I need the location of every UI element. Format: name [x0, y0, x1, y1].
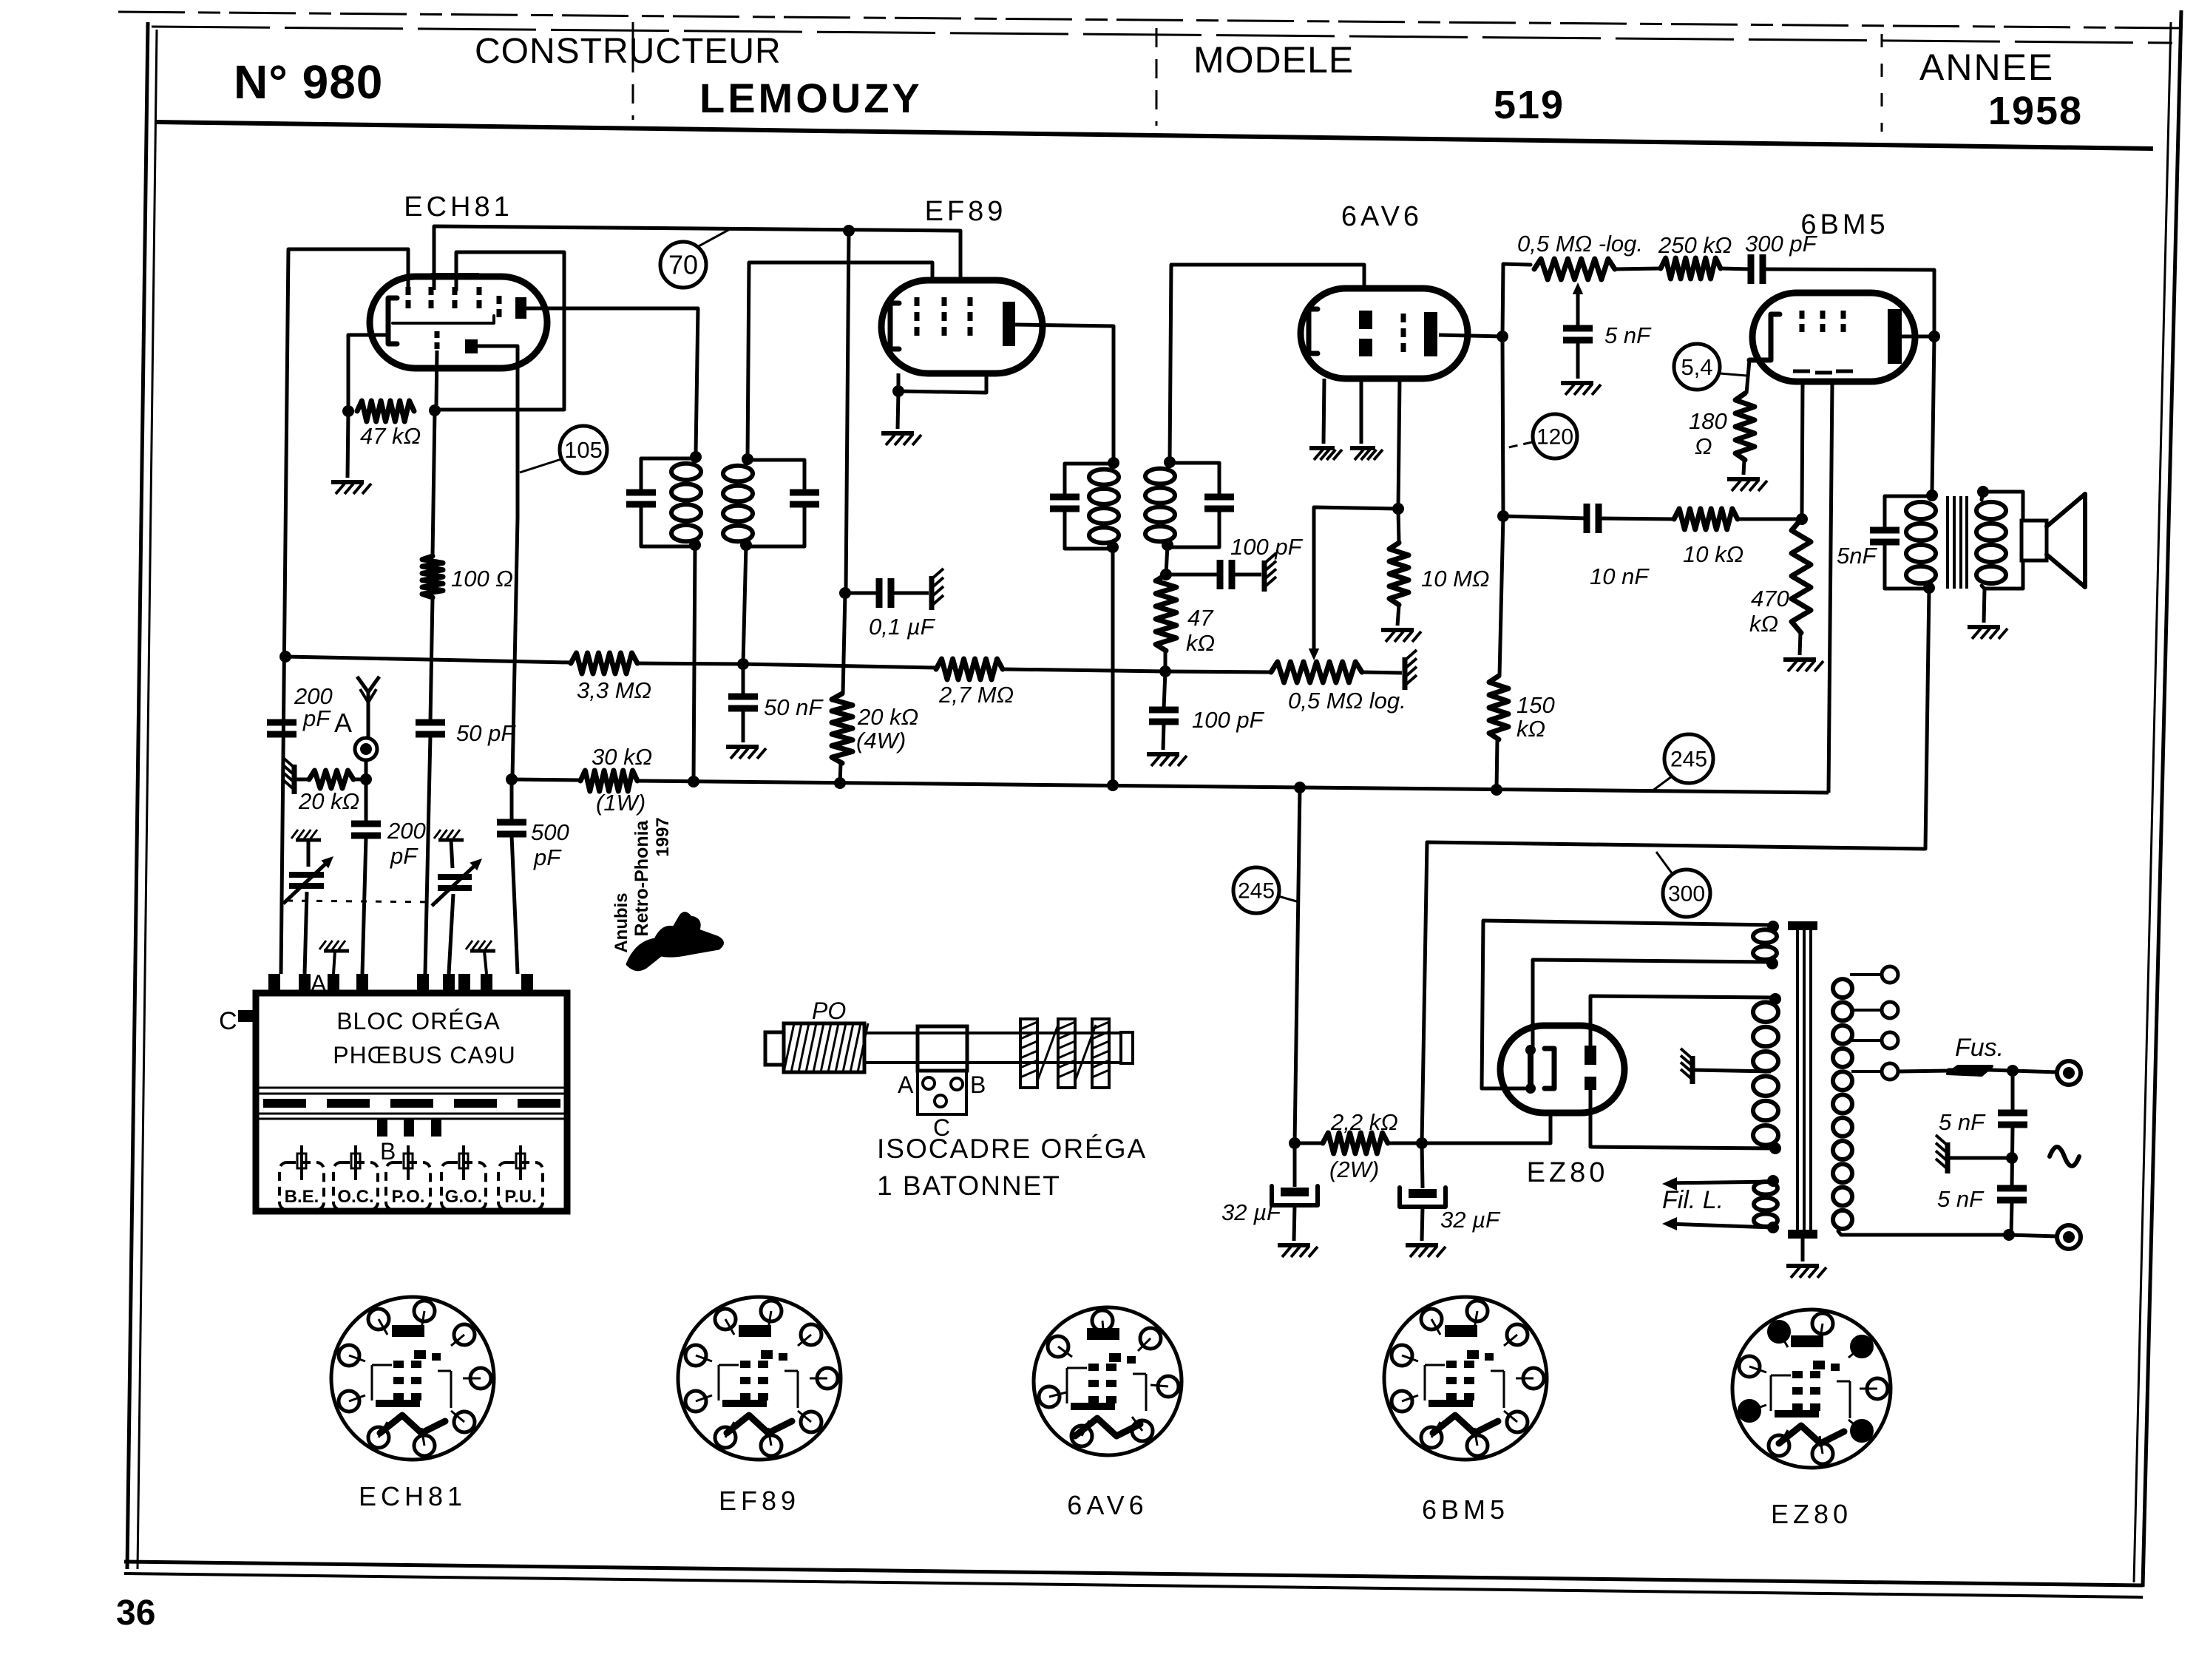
svg-text:LEMOUZY: LEMOUZY [699, 75, 923, 121]
coil power hv main [1753, 1002, 1778, 1145]
resistor 3.3M [571, 653, 637, 674]
node AVC junction 1 [737, 658, 749, 670]
svg-text:kΩ: kΩ [1516, 716, 1545, 742]
svg-text:20 kΩ: 20 kΩ [857, 704, 918, 730]
label 5nF mains 2 [1937, 1186, 1985, 1212]
wire 50nF to ground [742, 710, 745, 742]
tube 6AV6 cathode [1309, 309, 1318, 353]
label 200pF grid [294, 683, 333, 731]
label isocadre A [898, 1071, 914, 1098]
node 6BM5 grid junction [1796, 513, 1808, 525]
node IF1 primary B+ junction [688, 776, 699, 787]
svg-text:BLOC ORÉGA: BLOC ORÉGA [336, 1008, 501, 1034]
page border right (double line) [2134, 10, 2181, 1587]
svg-text:470: 470 [1751, 586, 1789, 612]
pinout EF89 label [719, 1486, 800, 1516]
node IF1 primary bottom [689, 539, 701, 551]
svg-text:47 kΩ: 47 kΩ [360, 423, 421, 449]
terminal tap 2 [1882, 1002, 1898, 1018]
wire primary tap 3 [1851, 1039, 1881, 1042]
coil IF1 secondary [723, 466, 753, 542]
svg-text:A: A [334, 708, 352, 738]
coil power primary [1833, 979, 1852, 1229]
label Fus. [1955, 1034, 2004, 1062]
node 500pF junction [506, 773, 518, 785]
wire bottom to neutral terminal [2009, 1235, 2057, 1236]
ground under 6AV6 grid [1350, 448, 1383, 460]
wire IF1 sec top to EF89 grid [748, 262, 932, 459]
capacitor 200pF grid [267, 722, 296, 734]
ground under 6AV6 cathode [1309, 448, 1342, 460]
tube ECH81 label [404, 192, 513, 223]
resistor 2.2k [1323, 1133, 1388, 1154]
node 2.2k left junction [1289, 1137, 1301, 1149]
wire EZ80 hv section1 top [1483, 921, 1773, 925]
node output primary bottom [1923, 582, 1935, 594]
svg-text:32 µF: 32 µF [1440, 1207, 1501, 1233]
wire primary bottom [1838, 1231, 2009, 1235]
bloc key switches [279, 1145, 543, 1210]
wire output primary to B+ riser [1925, 589, 1929, 849]
wire plate line down [1502, 336, 1503, 516]
wire pointer 70 [697, 229, 730, 247]
tube 6AV6 diode plates [1359, 311, 1372, 356]
label sine [2050, 1147, 2079, 1166]
wire 6AV6 plate out [1439, 335, 1502, 336]
wire ECH81 screen pin up [433, 226, 436, 290]
svg-text:EF89: EF89 [925, 196, 1007, 227]
svg-text:5,4: 5,4 [1681, 354, 1712, 380]
capacitor 50pF [416, 722, 445, 734]
wire pointer 120 [1505, 442, 1532, 448]
capacitor 100pF coupling [1220, 560, 1232, 589]
wire 20k to bus [840, 763, 841, 783]
ground under 10M [1381, 630, 1421, 642]
label 50nF [764, 694, 824, 720]
label Fil. L. [1662, 1186, 1724, 1214]
svg-text:1 BATONNET: 1 BATONNET [877, 1171, 1061, 1201]
label ISOCADRE OREGA [877, 1134, 1147, 1164]
wire IF2 sec bottom down [1166, 545, 1168, 575]
node junction 47k left [342, 405, 354, 417]
header text MODELE [1193, 39, 1354, 81]
wire EZ80 plate2 down [1590, 1090, 1774, 1148]
label B bloc [380, 1138, 396, 1165]
capacitor 32uF 1 [1272, 1186, 1318, 1205]
svg-text:1958: 1958 [1988, 89, 2083, 133]
svg-text:105: 105 [564, 437, 603, 463]
wire plate to output transformer [1932, 336, 1934, 492]
capacitor 100pF AVC [1149, 710, 1179, 722]
wire EZ80 cathode1 top [1533, 960, 1772, 1049]
wire core ground [1801, 1239, 1805, 1261]
svg-text:A: A [311, 970, 327, 997]
wire 47k to AVC bus [1164, 651, 1168, 671]
svg-text:5 nF: 5 nF [1937, 1186, 1985, 1212]
svg-text:250 kΩ: 250 kΩ [1658, 232, 1732, 258]
ground above bloc pin 3 [319, 941, 349, 974]
tube ECH81 envelope [370, 277, 547, 368]
wire 10nF to 10k [1599, 518, 1674, 519]
circled 300 [1663, 870, 1710, 917]
svg-text:Retro-Phonia: Retro-Phonia [631, 819, 652, 936]
isocadre center block [918, 1026, 967, 1071]
bloc input pins [268, 974, 533, 995]
wire EF89 plate out [1015, 325, 1114, 458]
svg-text:5 nF: 5 nF [1604, 322, 1652, 348]
node IF2 primary bus junction [1107, 779, 1119, 791]
resistor 180 [1735, 393, 1755, 460]
wire stub to mid junction [1949, 1156, 2012, 1160]
capacitor IF1 secondary [790, 492, 819, 504]
svg-text:kΩ: kΩ [1186, 630, 1215, 656]
tube ECH81 triode plate [465, 339, 478, 353]
svg-text:G.O.: G.O. [445, 1187, 483, 1207]
wire ECH81 g pin3 loop [456, 252, 564, 410]
wire 6BM5 plate out [1902, 335, 1934, 339]
arrow fil 1 [1662, 1177, 1677, 1190]
node fil top [1767, 1175, 1779, 1187]
arrow treble wiper [1573, 282, 1583, 294]
label 5nF treble [1604, 322, 1652, 348]
node AVC left end [279, 651, 291, 663]
svg-text:245: 245 [1670, 748, 1707, 772]
wire 100ohm to 50pF [430, 597, 433, 722]
coil IF2 primary [1089, 470, 1119, 543]
svg-text:(4W): (4W) [856, 728, 906, 753]
wire 32uF2 top [1422, 1143, 1423, 1188]
wire wiper feed [1314, 507, 1398, 651]
pinout EZ80 [1732, 1310, 1891, 1468]
header separator line [155, 122, 2153, 149]
wire IF1 cap right branch [748, 460, 804, 491]
wire pointer 300 [1656, 852, 1673, 874]
resistor 150k [1489, 676, 1508, 739]
circled 105 [560, 426, 607, 473]
ground under 5nF treble [1561, 383, 1601, 395]
label 200pF antenna [387, 818, 426, 869]
circled 245 a [1233, 867, 1279, 913]
bloc text PHOEBUS CA9U [333, 1042, 516, 1068]
svg-text:PO: PO [812, 997, 846, 1024]
label 150k [1516, 692, 1555, 742]
wire filament 1 [1667, 1182, 1773, 1183]
bloc text BLOC OREGA [336, 1008, 501, 1034]
svg-text:EZ80: EZ80 [1527, 1157, 1609, 1188]
node fil bottom [1767, 1222, 1779, 1233]
wire 32uF1 ground [1294, 1205, 1295, 1241]
label 47k ECH81 [360, 423, 421, 449]
label 47k 6AV6 [1186, 605, 1215, 656]
wire B+ bus [637, 781, 1829, 793]
wire EZ80 cathode1 bottom [1482, 921, 1525, 1088]
node IF1 primary top [690, 451, 702, 463]
svg-text:2,7 MΩ: 2,7 MΩ [938, 682, 1014, 708]
tube ECH81 grid dashes g1 [406, 287, 411, 308]
page border left (double line) [127, 22, 157, 1569]
node 150k bus junction [1491, 784, 1502, 796]
svg-text:300: 300 [1668, 882, 1705, 907]
label 100pF AVC [1192, 707, 1265, 733]
coil power hv section1 [1753, 929, 1777, 960]
node hv main bottom [1769, 1142, 1781, 1154]
node 20k bus junction [834, 777, 846, 789]
wire 47k junction down [1164, 671, 1165, 708]
tube 6BM5 grid dashes 1 [1793, 311, 1810, 371]
resistor 250k [1661, 258, 1721, 279]
svg-text:50 nF: 50 nF [764, 694, 824, 720]
node mains junction bottom [2003, 1229, 2015, 1241]
ground above varcap2 [434, 830, 464, 840]
resistor 20k 4W [832, 694, 853, 763]
wire varcap1 to bloc [305, 892, 307, 974]
wire output primary top [1931, 495, 1932, 500]
wire IF1 secondary to AVC [743, 545, 746, 664]
chassis stub 0.1uF [932, 569, 943, 610]
label 20k antenna [298, 788, 359, 814]
label volume pot [1288, 688, 1406, 714]
tube ECH81 grid dashes g3 [453, 287, 458, 308]
node IF2 secondary top [1164, 456, 1176, 468]
coil IF2 secondary [1145, 469, 1175, 542]
wire EF89 screen line down [846, 231, 849, 592]
label PO [812, 997, 846, 1024]
tube EF89 envelope [881, 280, 1043, 373]
wire IF2 cap right bottom [1168, 512, 1219, 547]
svg-text:Fil. L.: Fil. L. [1662, 1186, 1724, 1214]
wire ECH81 grid left vertical [281, 249, 288, 974]
svg-text:20 kΩ: 20 kΩ [298, 788, 359, 814]
tube 6BM5 envelope [1752, 293, 1915, 382]
label 180 [1689, 408, 1727, 459]
node junction top bus [843, 225, 855, 237]
wire 6BM5 screen to bus riser [1829, 382, 1832, 793]
svg-text:ISOCADRE ORÉGA: ISOCADRE ORÉGA [877, 1134, 1147, 1164]
svg-text:B: B [380, 1138, 396, 1165]
label 30k [592, 744, 652, 816]
tube EZ80 envelope [1500, 1026, 1624, 1113]
svg-text:70: 70 [668, 250, 698, 280]
node speaker top [1977, 486, 1989, 498]
svg-text:0,5 MΩ -log.: 0,5 MΩ -log. [1517, 231, 1643, 257]
svg-text:5nF: 5nF [1837, 543, 1877, 569]
wire varcap1 top [307, 840, 311, 867]
wire IF2 sec top to 6AV6 grid [1170, 265, 1364, 462]
svg-text:B: B [970, 1071, 986, 1098]
wire 100pF to stub [1232, 573, 1261, 577]
node mains junction top [2007, 1065, 2019, 1077]
label 5nF mains 1 [1939, 1109, 1986, 1135]
wire antenna down [365, 760, 368, 822]
wire EZ80 plate1 up [1590, 996, 1774, 1046]
circled 245 b [1664, 734, 1713, 783]
wire AVC bus mid [637, 663, 743, 664]
svg-text:5 nF: 5 nF [1939, 1109, 1986, 1135]
svg-text:0,1 µF: 0,1 µF [869, 614, 936, 640]
wire 5nF output branch [1885, 496, 1932, 529]
node IF1 secondary top [742, 453, 753, 465]
chassis stub mains [1936, 1135, 1948, 1173]
isocadre adjusters [1020, 1019, 1109, 1088]
label 100pF coupling [1230, 534, 1304, 560]
pinout 6BM5 [1384, 1297, 1547, 1460]
header column separator 3 (dashed) [1881, 34, 1883, 132]
wire top bus to EF89 screen [434, 226, 960, 281]
node junction 47k right [429, 404, 441, 416]
label 100ohm [451, 566, 513, 592]
ground under 180 [1727, 479, 1767, 491]
wire IF2 cap left bottom [1065, 512, 1113, 549]
svg-text:10 nF: 10 nF [1590, 563, 1650, 589]
svg-text:EF89: EF89 [719, 1486, 800, 1516]
wire EF89 g3 strap [898, 373, 986, 393]
svg-text:pF: pF [390, 843, 418, 869]
tube EF89 grid dashes 2 [942, 297, 947, 336]
coil IF1 primary [671, 464, 701, 541]
tube EZ80 label [1527, 1157, 1609, 1188]
page border bottom (double line) [124, 1562, 2143, 1597]
svg-text:300 pF: 300 pF [1745, 231, 1818, 257]
wire ECH81 plate out [526, 308, 698, 453]
label 0.1uF [869, 614, 936, 640]
ganged tuning dashed link [287, 901, 438, 902]
svg-text:P.O.: P.O. [392, 1187, 425, 1207]
header text ANNEE [1919, 47, 2054, 88]
variable capacitor 1 [283, 856, 333, 904]
svg-text:N° 980: N° 980 [234, 55, 383, 109]
chassis stub 100pF [1264, 553, 1276, 592]
page number 36 [116, 1593, 155, 1633]
label 10k [1683, 541, 1743, 567]
header text LEMOUZY [699, 75, 923, 121]
header column separator 1 (dashed) [632, 22, 634, 120]
tube 6BM5 plate [1888, 309, 1902, 364]
header text CONSTRUCTEUR [475, 32, 782, 71]
capacitor 5nF treble [1563, 328, 1593, 340]
label A antenna [334, 708, 352, 738]
node 6BM5 plate junction [1928, 331, 1940, 342]
wire varcap2 top [451, 840, 453, 868]
fuse [1948, 1066, 1993, 1075]
svg-text:36: 36 [116, 1593, 155, 1633]
capacitor IF1 primary [626, 492, 656, 504]
tube 6BM5 label [1800, 209, 1888, 240]
wire primary tap 2 [1851, 1009, 1881, 1012]
watermark anubis text [611, 817, 673, 952]
svg-text:B.E.: B.E. [285, 1187, 319, 1207]
svg-text:32 µF: 32 µF [1221, 1199, 1282, 1225]
wire treble wiper down [1576, 290, 1580, 327]
variable capacitor 2 [432, 858, 482, 906]
wire 500pF top [510, 779, 514, 822]
label C bloc [219, 1007, 237, 1035]
capacitor 0.1uF [879, 578, 891, 608]
node hv section1 bottom [1766, 958, 1778, 969]
chassis stub volume pot [1405, 650, 1417, 690]
wire plate junction up [1502, 264, 1531, 336]
svg-text:ANNEE: ANNEE [1919, 47, 2054, 88]
wire diode junction to 10M [1398, 509, 1399, 543]
terminal tap 3 [1882, 1032, 1898, 1049]
wire AVC bus mid2 [743, 664, 936, 668]
wire IF2 primary to bus [1111, 547, 1115, 785]
wire IF1 primary to B+ bus [694, 545, 695, 782]
label 250k [1658, 232, 1732, 258]
isocadre terminal plate [918, 1071, 966, 1114]
svg-text:A: A [898, 1071, 914, 1098]
ground above bloc pin 8 [466, 941, 495, 974]
svg-text:(1W): (1W) [596, 790, 645, 816]
isocadre left cap [765, 1032, 784, 1065]
wire 180 ground [1743, 460, 1744, 475]
resistor treble pot 0.5M log [1534, 259, 1615, 280]
svg-text:2,2 kΩ: 2,2 kΩ [1330, 1109, 1398, 1135]
tube 6BM5 grid dashes 2 [1815, 311, 1832, 373]
svg-text:245: 245 [1238, 879, 1275, 904]
wire to 100pF coupling [1166, 573, 1220, 577]
node output transformer top [1926, 490, 1938, 501]
svg-text:1997: 1997 [653, 817, 673, 856]
svg-text:6AV6: 6AV6 [1067, 1490, 1148, 1520]
svg-text:10 kΩ: 10 kΩ [1683, 541, 1743, 567]
wire 5nF treble ground [1576, 342, 1580, 379]
tube EF89 label [925, 196, 1007, 227]
label 50pF [456, 720, 516, 746]
header text 1958 [1988, 89, 2083, 133]
bloc OREGA box [256, 993, 567, 1211]
isocadre PO winding [784, 1023, 868, 1072]
resistor 470k [1792, 519, 1811, 633]
resistor 10M [1389, 543, 1409, 605]
label 2.7M [938, 682, 1014, 708]
svg-text:10 MΩ: 10 MΩ [1421, 566, 1490, 592]
wire AVC bus left [285, 657, 571, 663]
svg-text:C: C [219, 1007, 237, 1035]
wire 47k left to ground [348, 411, 348, 478]
label 10M [1421, 566, 1490, 592]
svg-text:30 kΩ: 30 kΩ [592, 744, 652, 770]
resistor 10k [1674, 509, 1738, 529]
wire IF2 cap left branch [1065, 464, 1114, 495]
wire filament 2 [1667, 1224, 1773, 1227]
wire pointer 245b [1652, 776, 1672, 791]
node IF2 secondary bottom [1162, 539, 1173, 551]
wire fuse to live terminal [1990, 1070, 2057, 1072]
wire secondary top to speaker [1982, 492, 2023, 521]
capacitor 200pF antenna [351, 824, 381, 836]
tube ECH81 grid dashes g5 [497, 296, 502, 317]
wire primary tap 4 [1851, 1070, 1881, 1073]
node EF89 cathode junction [892, 385, 904, 397]
svg-text:120: 120 [1536, 425, 1573, 450]
resistor 20k antenna [309, 770, 353, 788]
label treble pot [1517, 231, 1643, 257]
ground under 50nF [726, 747, 766, 759]
resistor 47k 6AV6 [1156, 575, 1176, 651]
wire EZ80 cathode2 to filter [1422, 1113, 1551, 1143]
node 0.1uF junction [839, 587, 851, 599]
tube EF89 grid dashes 3 [968, 297, 973, 336]
wire 50pF to bloc [425, 736, 430, 974]
label 32uF 2 [1440, 1207, 1501, 1233]
svg-text:500: 500 [531, 819, 569, 845]
bloc pin C [238, 1010, 256, 1022]
bloc B pins [377, 1119, 441, 1137]
tube EF89 cathode [890, 303, 899, 349]
node 6AV6 plate junction [1497, 331, 1508, 342]
wire IF2 cap right branch [1170, 463, 1219, 495]
wire stub to 20k [296, 778, 309, 782]
